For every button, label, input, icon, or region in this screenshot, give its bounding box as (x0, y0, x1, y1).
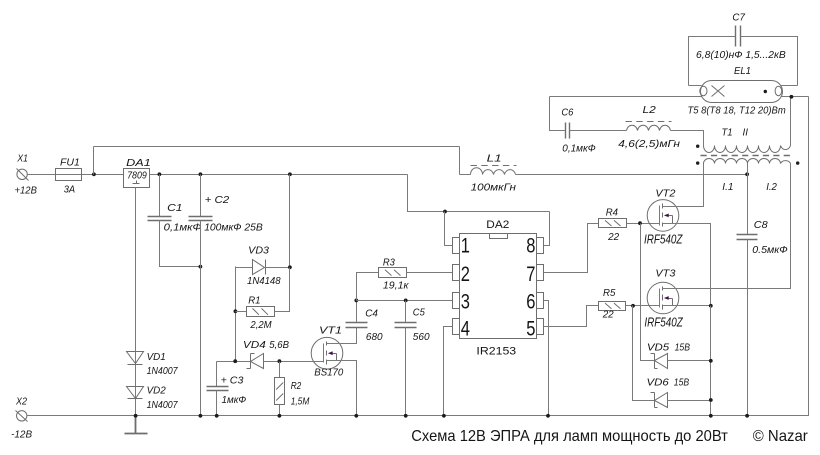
svg-text:VD2: VD2 (147, 384, 166, 396)
phase dot primary I.1 (696, 161, 699, 164)
diode VD3 (253, 260, 266, 275)
wire R2 top lead (279, 362, 281, 378)
lamp EL1 tube (701, 81, 783, 103)
resistor R4 (599, 219, 627, 228)
svg-text:II: II (743, 127, 749, 139)
node VT2 gate junction (638, 221, 642, 225)
wire C8 bottom to ground rail (747, 240, 749, 416)
svg-text:-12В: -12В (11, 428, 32, 440)
svg-text:0,1мкФ: 0,1мкФ (164, 222, 202, 234)
wire VT2 source down (663, 224, 711, 306)
DA2 orientation notch (490, 234, 508, 239)
inductor L2 core dash (626, 121, 672, 123)
svg-text:BS170: BS170 (314, 367, 343, 379)
wire R3 left riser from pin3 line (357, 273, 379, 301)
wire VD6 from VT3 gate (633, 306, 655, 401)
DA2 pin 8 box (537, 238, 544, 254)
wire lamp lower-right pin to right edge (781, 96, 809, 98)
svg-text:VD5: VD5 (647, 341, 669, 353)
wire ground rail and right edge riser (27, 97, 809, 416)
wire VD3 left down to VD4 line (235, 267, 237, 362)
svg-text:C8: C8 (754, 219, 768, 231)
svg-text:IRF540Z: IRF540Z (644, 316, 683, 330)
wire top rail down to L1 (459, 147, 461, 175)
wire DA2 pin5 to R5 (544, 306, 599, 327)
wire L1 left stub (460, 174, 471, 176)
svg-text:680: 680 (366, 331, 383, 343)
inductor L1 core dash (471, 165, 517, 167)
wire C4 top lead (356, 301, 358, 323)
svg-text:C5: C5 (413, 307, 425, 319)
svg-text:VD3: VD3 (248, 245, 269, 257)
svg-text:1N4007: 1N4007 (147, 365, 179, 377)
svg-text:T5 8(Т8 18, Т12 20)Вт: T5 8(Т8 18, Т12 20)Вт (688, 105, 786, 117)
svg-text:3A: 3A (64, 184, 75, 196)
wire R2 bottom lead to ground rail (279, 405, 281, 416)
wire C1 bottom to C2 bottom (160, 221, 201, 267)
DA2 pin 4 box (453, 319, 460, 335)
svg-text:R1: R1 (248, 294, 260, 306)
capacitor C1 (148, 217, 172, 221)
svg-text:+ С3: + С3 (221, 375, 244, 387)
terminal X1 (17, 169, 27, 179)
node VD5 right junction (709, 359, 713, 363)
node C1 tap on 9V rail (158, 172, 162, 176)
transistor VT3 gate bar (659, 289, 661, 308)
wire R1 right lead up to VD3 line (275, 268, 290, 312)
svg-text:VT1: VT1 (319, 325, 342, 337)
svg-text:6,8(10)нФ 1,5...2кВ: 6,8(10)нФ 1,5...2кВ (696, 49, 786, 61)
inductor L2 (627, 125, 671, 130)
node VD6 right junction (709, 398, 713, 402)
wire R5 to VT3 gate (626, 305, 660, 307)
capacitor C5 (395, 323, 417, 328)
svg-text:L1: L1 (487, 153, 502, 165)
node DA2 supply junction (443, 210, 447, 214)
wire secondary II right riser to lamp (790, 97, 792, 146)
wire VD6 to source rail (668, 400, 711, 402)
terminal X2 (17, 411, 27, 421)
resistor R2 (275, 378, 285, 405)
DA2 pin 7 box (537, 265, 544, 281)
wire VD5 to source rail (668, 360, 711, 362)
wire to DA2 pin1 (445, 212, 453, 246)
wire L2 to secondary II (671, 131, 704, 146)
svg-text:5,6В: 5,6В (269, 339, 289, 351)
svg-text:R4: R4 (606, 207, 618, 219)
wire VT3 drain to primary I.2 (663, 164, 791, 289)
node ground rail junction x279.4 (278, 414, 282, 418)
node VT3 gate junction (631, 304, 635, 308)
lamp EL1 right filament (775, 86, 782, 95)
svg-text:R3: R3 (383, 257, 395, 269)
transistor VT2 channel segments (662, 204, 664, 227)
svg-text:2: 2 (461, 263, 470, 286)
node C5 top junction (404, 299, 408, 303)
svg-text:R2: R2 (291, 380, 302, 392)
wire C7 loop left (689, 37, 736, 86)
wire VT1 drain to C4 bottom (327, 328, 357, 344)
svg-text:1мкФ: 1мкФ (222, 394, 247, 406)
svg-text:4: 4 (461, 317, 470, 340)
phase dot secondary II (696, 145, 699, 148)
svg-text:1: 1 (461, 235, 470, 258)
wire VD3 cathode lead (266, 267, 290, 269)
transistor VT2 gate bar (659, 206, 661, 226)
diode VD1 (127, 352, 144, 365)
transistor VT2 body-diode arrow (668, 216, 673, 224)
svg-text:VD6: VD6 (647, 377, 669, 389)
node C4 top junction (354, 299, 358, 303)
svg-text:C6: C6 (561, 107, 573, 119)
wire VT1 source to ground rail (327, 361, 357, 416)
wire VT2 drain to primary I.1 (663, 164, 704, 207)
capacitor C7 (736, 26, 741, 47)
wire DA2 pin7 to R4 (544, 224, 599, 273)
svg-text:7: 7 (526, 263, 535, 286)
node ground rail junction x443.9 (442, 414, 446, 418)
wire riser to +12V top rail (93, 147, 95, 175)
svg-text:+ C2: + C2 (205, 194, 230, 206)
node center tap junction (745, 172, 749, 176)
svg-text:22: 22 (602, 308, 614, 320)
transistor VT1 body-diode arrow (332, 354, 337, 361)
wire DA1 ground lead down through VD1 VD2 (135, 188, 137, 416)
resistor R1 (247, 307, 275, 317)
fuse FU1 (56, 169, 82, 181)
node VD4 line left junction (233, 359, 237, 363)
resistor R3 (379, 268, 407, 278)
svg-text:VD1: VD1 (147, 351, 166, 363)
svg-text:VT3: VT3 (655, 268, 675, 280)
svg-text:1N4007: 1N4007 (147, 399, 179, 411)
node VD3 right junction (288, 265, 292, 269)
svg-text:1,5M: 1,5M (291, 396, 310, 408)
svg-text:Схема 12В ЭПРА для ламп мощнос: Схема 12В ЭПРА для ламп мощность до 20Вт (411, 428, 728, 445)
capacitor C8 (737, 235, 758, 240)
wire DA2 pin4 to ground rail (444, 327, 453, 416)
inductor L1 (471, 168, 516, 175)
node VT2/VT3 source junction (709, 304, 713, 308)
DA2 pin 1 box (453, 238, 460, 254)
wire DA2 pin6 to ground rail (544, 301, 549, 416)
regulator DA1 box (124, 169, 150, 188)
wire L1 to transformer center tap (516, 174, 748, 176)
wire R3 right to DA2 pin2 (407, 272, 453, 274)
node lamp right junction (790, 95, 794, 99)
svg-text:VT2: VT2 (655, 188, 675, 200)
wire C2 top lead (200, 175, 202, 217)
transistor VT1 gate bar (323, 344, 325, 363)
svg-text:100мкФ 25В: 100мкФ 25В (204, 222, 263, 234)
svg-text:560: 560 (413, 331, 430, 343)
capacitor C4 (346, 323, 368, 328)
svg-text:T1: T1 (722, 127, 733, 139)
svg-text:100мкГн: 100мкГн (471, 182, 516, 194)
transistor VT3 body-diode arrow (668, 299, 673, 306)
node ground rail junction x200.4 (199, 414, 203, 418)
node ground rail junction x216.7 (215, 414, 219, 418)
wire source junction to ground rail (710, 306, 712, 416)
DA2 pin 2 box (453, 265, 460, 281)
svg-text:VD4: VD4 (243, 339, 266, 351)
wire C5 bottom lead to ground rail (405, 328, 407, 416)
svg-text:22: 22 (607, 231, 619, 243)
svg-text:C4: C4 (365, 308, 378, 320)
wire C1 top lead (159, 175, 161, 217)
svg-text:X1: X1 (17, 154, 28, 165)
svg-text:DA2: DA2 (486, 219, 509, 231)
lamp EL1 inner dot (764, 90, 767, 93)
svg-text:IR2153: IR2153 (476, 345, 516, 357)
wire pin3 line C4 to DA2 (357, 300, 453, 302)
svg-text:19,1к: 19,1к (383, 280, 410, 292)
svg-text:1N4148: 1N4148 (247, 275, 281, 287)
transformer T1 core (701, 155, 794, 157)
wire VD3 chain riser (289, 175, 291, 268)
regulator DA1 common pin symbol (133, 181, 140, 184)
node C1/C2 bottom junction (199, 265, 203, 269)
svg-text:L2: L2 (643, 104, 656, 116)
node R2 top junction (278, 359, 282, 363)
svg-text:C1: C1 (167, 202, 182, 214)
svg-text:DA1: DA1 (126, 157, 151, 169)
wire lamp upper-left pin (689, 85, 702, 87)
wire C3 bottom lead to ground rail (216, 391, 218, 416)
zener diode VD4 (247, 354, 264, 369)
node ground rail junction x710.8 (709, 414, 713, 418)
node ground rail junction x135.6 (134, 414, 138, 418)
ground symbol (125, 416, 148, 434)
node ground rail junction x747.1 (745, 414, 749, 418)
transistor VT1 body circle (311, 337, 343, 369)
svg-text:+12В: +12В (15, 185, 37, 197)
wire VT3 source (663, 305, 711, 307)
node C2 tap on 9V rail (199, 172, 203, 176)
wire VD5 from VT2 gate (641, 224, 655, 361)
node R1 left junction (234, 309, 238, 313)
transistor VT1 channel segments (326, 342, 328, 365)
node ground rail junction x548 (546, 414, 550, 418)
wire to DA2 pin8 (544, 212, 550, 246)
svg-text:R5: R5 (603, 287, 615, 299)
wire lamp upper-right pin (781, 85, 798, 87)
transistor VT3 body circle (647, 282, 679, 314)
wire DA1 output rail 9V (150, 174, 408, 176)
wire C5 top lead (405, 301, 407, 323)
wire VD4 line from C3 top (217, 361, 251, 363)
wire center tap to C8 (747, 164, 749, 235)
wire R1 left lead (236, 311, 247, 313)
wire C3 top lead (216, 362, 218, 387)
svg-text:7809: 7809 (127, 171, 147, 182)
svg-text:6: 6 (526, 291, 535, 314)
wire 9V rail step down (408, 175, 550, 212)
lamp EL1 starter X mark (712, 86, 725, 97)
wire C6 to L2 (570, 130, 627, 132)
svg-text:15В: 15В (674, 377, 689, 389)
capacitor C3 (207, 387, 229, 391)
zener diode VD6 (651, 393, 668, 408)
wire R4 to VT2 gate (627, 223, 660, 225)
svg-text:3: 3 (461, 291, 470, 314)
svg-text:5: 5 (526, 317, 535, 340)
svg-text:IRF540Z: IRF540Z (644, 233, 683, 247)
lamp EL1 left filament (700, 86, 707, 95)
transformer T1 primary winding I.1 I.2 (704, 158, 791, 163)
node ground rail junction x356.3 (354, 414, 358, 418)
op-amp U1 DA2 IR2153 body (460, 234, 537, 339)
svg-text:8: 8 (526, 235, 535, 258)
transformer T1 secondary II winding (704, 146, 791, 153)
svg-text:EL1: EL1 (734, 65, 751, 77)
svg-text:15В: 15В (675, 341, 690, 353)
DA2 pin 6 box (537, 293, 544, 309)
svg-text:C7: C7 (732, 12, 746, 24)
resistor R5 (599, 302, 626, 311)
wire lamp lower-left pin feed (550, 97, 702, 131)
wire +12V top rail (94, 146, 460, 148)
node junction at FU1 output (92, 172, 96, 176)
DA2 pin 5 box (537, 319, 544, 335)
svg-text:0.5мкФ: 0.5мкФ (752, 244, 787, 256)
wire VD4 to VT1 gate (264, 361, 324, 363)
node VD3 chain tap on 9V rail (288, 172, 292, 176)
svg-text:© Nazar: © Nazar (753, 428, 808, 445)
wire C2 bottom down to ground rail (200, 221, 202, 416)
svg-text:X2: X2 (15, 397, 27, 408)
svg-text:0,1мкФ: 0,1мкФ (562, 143, 595, 155)
transistor VT3 channel segments (662, 287, 664, 310)
diode VD2 (127, 387, 144, 399)
capacitor C2 (189, 217, 213, 221)
node ground rail junction x405.7 (404, 414, 408, 418)
transistor VT2 body circle (647, 200, 679, 232)
zener diode VD5 (651, 354, 668, 369)
wire C7 loop right (741, 37, 798, 86)
svg-text:I.2: I.2 (766, 181, 777, 193)
wire VD3 anode lead (236, 267, 253, 269)
DA2 pin 3 box (453, 293, 460, 309)
svg-text:4,6(2,5)мГн: 4,6(2,5)мГн (618, 138, 680, 150)
capacitor C6 (566, 123, 570, 139)
svg-text:2,2M: 2,2M (249, 319, 271, 331)
wire X1 to DA1 input (28, 174, 124, 176)
phase dot primary I.2 (796, 161, 799, 164)
svg-text:FU1: FU1 (60, 158, 80, 169)
svg-text:I.1: I.1 (722, 181, 733, 193)
